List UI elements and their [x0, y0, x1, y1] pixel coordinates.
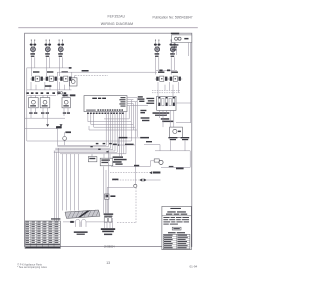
run y150.8	[155, 151, 190, 168]
EOC right pin labels	[119, 97, 125, 107]
oven light lamp	[71, 80, 75, 84]
dashed rows right mid	[152, 89, 180, 91]
junction ring	[134, 184, 137, 187]
figure box F1	[172, 35, 192, 43]
bus wire y128	[25, 128, 58, 130]
legend mini table	[163, 234, 190, 249]
surface unit SU2	[45, 40, 52, 57]
wire left inner vertical	[26, 68, 28, 141]
dashed run y75	[75, 74, 108, 76]
diagram outer frame	[25, 33, 192, 246]
wire run y141	[27, 140, 132, 142]
dotted line y180	[112, 179, 139, 181]
svg-text:FEF352AU: FEF352AU	[108, 14, 126, 18]
oven light assembly box	[69, 78, 77, 86]
door switch drop wires	[92, 154, 110, 158]
infinite switch S2	[44, 76, 58, 81]
surface unit SU1	[30, 40, 37, 57]
marks on y70.4	[159, 70, 162, 72]
door lock label	[110, 195, 115, 197]
pilot lamp in K1	[32, 100, 36, 104]
indicator lamp on bundle	[63, 137, 67, 141]
svg-text:* See accompanying notes: * See accompanying notes	[17, 266, 47, 269]
bundle left drop comb	[55, 148, 79, 221]
connector arrow B	[60, 124, 63, 127]
broil drop wires	[104, 150, 109, 213]
connector arrow A	[46, 124, 49, 127]
staircase horizontals	[88, 122, 137, 130]
label left of y180	[112, 179, 118, 181]
wire below EOC y118.9	[104, 118, 129, 120]
wire run y70.4 right	[156, 69, 177, 71]
EOC title text	[92, 98, 106, 99]
infinite switch S4	[155, 76, 169, 81]
bus wire y118	[25, 117, 65, 119]
terminal block TB	[157, 96, 176, 110]
dashed vertical door link	[135, 188, 137, 223]
wire drops SU5	[171, 57, 174, 74]
svg-text:01-94: 01-94	[190, 264, 198, 268]
sensor label B	[181, 137, 190, 140]
latch connector cluster	[104, 213, 114, 216]
vertical x135.3 to junction	[134, 150, 136, 184]
wires y137 row	[127, 136, 140, 139]
sensor label A	[168, 137, 177, 140]
connector pair arrows y180	[139, 178, 142, 181]
dotted probe line y172.7	[110, 172, 149, 174]
wire y167.3 right	[161, 166, 190, 168]
vertical from y72 at x57	[56, 72, 58, 95]
legend title	[170, 208, 181, 209]
oven light drop wires	[72, 72, 75, 78]
door switch box A	[88, 157, 97, 162]
staircase left risers	[88, 114, 94, 130]
small mark x70 y68	[69, 67, 72, 69]
label on y167.3	[176, 168, 184, 170]
wire right inner vertical	[187, 43, 189, 57]
probe arrow label	[149, 171, 152, 174]
limit label A	[119, 137, 149, 139]
label above y144.6	[146, 141, 152, 142]
small text above bus	[45, 85, 52, 87]
junction dot	[118, 144, 120, 146]
dark comp at x58 y127	[57, 126, 62, 128]
wire right edge long vertical	[176, 43, 191, 123]
wires below K row	[31, 108, 68, 124]
figure box drop wires	[174, 48, 177, 55]
TB bottom wires	[159, 110, 174, 127]
EOC bottom pin text row	[86, 109, 123, 110]
oven lamp box	[170, 127, 183, 137]
EOC pin stubs row below box	[87, 113, 124, 115]
EOC exit wires right	[127, 98, 148, 106]
switch S1 label	[33, 71, 39, 72]
bus wire y95 lower	[27, 94, 56, 96]
label cluster mid-right	[161, 118, 173, 122]
EOC exit verticals staircase	[129, 98, 137, 130]
label above table	[51, 218, 60, 219]
wire y144.6 right	[144, 145, 160, 151]
latch connector pins	[104, 218, 107, 223]
wire run y166.4	[111, 161, 154, 167]
wire y187.4 left	[107, 187, 133, 194]
wire run y221.9	[63, 221, 113, 223]
door lock drop wires	[106, 199, 108, 213]
labels under oven light	[62, 94, 67, 96]
legend subtitle lines	[167, 211, 175, 212]
switch S3 label	[62, 71, 68, 72]
lamp A in figure box	[175, 37, 178, 40]
infinite switch S3	[59, 76, 73, 81]
table column rules	[31, 221, 54, 248]
marks on y221 wire	[70, 221, 74, 223]
door switch box B	[100, 158, 113, 166]
relay board cluster	[113, 156, 127, 164]
bus wire y90	[27, 89, 72, 91]
surface unit SU4	[154, 40, 161, 57]
right switch drops to terminal block	[158, 82, 179, 96]
broil loop B	[81, 219, 86, 227]
EOC control board box	[84, 96, 127, 112]
wires K row verticals	[31, 94, 68, 98]
pilot lamp in K3	[64, 100, 68, 104]
surface unit SU3	[58, 40, 65, 57]
EOC bottom drop wires	[106, 112, 126, 157]
latch label row	[101, 228, 115, 235]
oven switch box K3	[62, 98, 70, 108]
lamp B in figure box	[178, 37, 181, 40]
small comp above lamp	[65, 131, 71, 133]
end circle lamp	[159, 160, 163, 164]
wire chart table bottom-left	[25, 221, 60, 248]
legend center pill	[172, 227, 181, 230]
oven switch box K2	[40, 98, 50, 108]
wires below switch row	[31, 82, 70, 90]
bundle tick labels	[90, 143, 111, 153]
staircase down drops	[131, 122, 137, 150]
svg-text:2N38824: 2N38824	[104, 245, 115, 249]
vertical x57 mid	[56, 129, 58, 146]
svg-text:Publication No: 5995418847: Publication No: 5995418847	[153, 15, 193, 19]
header rule	[18, 27, 198, 29]
wire TB right to frame	[176, 102, 191, 104]
oven lamp circle	[173, 129, 177, 133]
oven lamp inner mark	[178, 131, 181, 133]
legend notes box	[162, 206, 191, 249]
L1 label on main run	[82, 70, 89, 72]
switch S4 label	[158, 72, 164, 73]
dashed horizontal door link	[117, 222, 136, 224]
K1 inner mark	[30, 105, 36, 106]
bake label below loops	[74, 231, 88, 234]
K2 inner mark	[42, 105, 48, 106]
surface unit SU5	[170, 40, 177, 57]
component on y128 wire	[56, 126, 62, 128]
infinite switch S5	[168, 76, 182, 81]
terminal label row on bus	[26, 85, 66, 94]
relay cluster R1	[138, 96, 145, 102]
lamp end comp	[154, 159, 159, 162]
junction wires y145	[113, 138, 136, 145]
relay cluster R2	[140, 110, 146, 114]
latch drop wires to label	[105, 218, 113, 228]
label on y166 wire	[134, 165, 139, 167]
lamp wire stub	[64, 132, 66, 145]
sensor drops	[171, 141, 185, 151]
figure box terminal label	[184, 38, 188, 40]
wire drops SU1	[32, 57, 35, 76]
figure box lower labels	[172, 44, 179, 45]
broil loop A	[75, 219, 80, 227]
TB bottom label	[153, 112, 170, 114]
labels under K boxes	[29, 112, 70, 114]
table row rules	[25, 223, 60, 243]
bake element hatched bar	[65, 210, 100, 219]
door lock switch	[105, 194, 109, 199]
svg-text:WIRING DIAGRAM: WIRING DIAGRAM	[101, 22, 133, 26]
wire drops SU4	[156, 57, 159, 74]
bus wire top-left horizontal	[27, 67, 72, 69]
switch S2 label	[47, 71, 53, 72]
TB left labels	[141, 98, 155, 121]
junction label y145	[113, 144, 117, 145]
TB inner elements	[158, 97, 175, 106]
legend divider	[162, 215, 191, 217]
table cell text speckle	[25, 222, 60, 249]
infinite switch S1	[30, 76, 44, 81]
svg-text:13: 13	[106, 261, 110, 265]
figure callout label	[171, 33, 179, 35]
main wire run y72	[57, 71, 157, 73]
bus bundle horizontals	[54, 145, 126, 153]
switch S5 label	[172, 72, 178, 73]
small terminals left of light	[58, 92, 60, 94]
wire drops SU2	[46, 57, 49, 76]
pilot lamp in K2	[43, 100, 47, 104]
legend paragraph	[163, 217, 189, 225]
wire drops SU3	[59, 57, 62, 76]
legend table header	[168, 232, 176, 233]
K3 inner mark	[63, 105, 68, 106]
oven switch box K1	[29, 98, 39, 108]
